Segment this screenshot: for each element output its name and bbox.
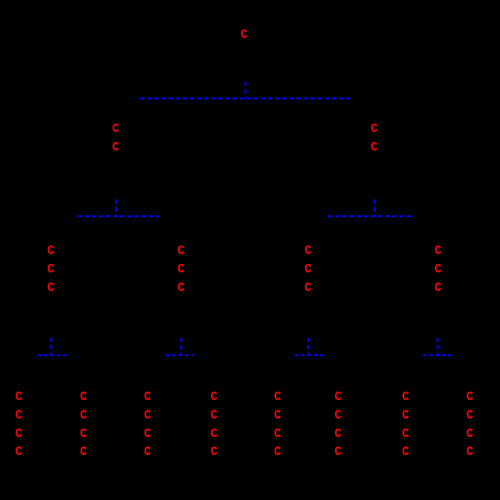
node leaf-3 label (4x C) (144, 389, 152, 459)
svg-text:C: C (334, 408, 342, 423)
svg-text:C: C (47, 243, 55, 258)
svg-text:C: C (210, 426, 218, 441)
svg-text:C: C (112, 121, 120, 136)
svg-text:C: C (274, 445, 282, 460)
node L1-right connector bar (horizontal dashed wire) (328, 215, 411, 217)
node L2-2 label (3x C) (177, 243, 185, 295)
svg-text:C: C (402, 408, 410, 423)
node root connector bar (horizontal dashed wire) (140, 98, 350, 100)
svg-text:C: C (434, 280, 442, 295)
svg-text:C: C (80, 408, 88, 423)
svg-text:C: C (210, 445, 218, 460)
svg-text:C: C (304, 262, 312, 277)
svg-text:C: C (15, 445, 23, 460)
svg-text:C: C (334, 389, 342, 404)
node root label (1x C) (240, 27, 248, 42)
svg-text:C: C (210, 408, 218, 423)
svg-text:C: C (274, 389, 282, 404)
node L2-4 connector stub (vertical dashed wire) (437, 337, 439, 355)
svg-text:C: C (15, 408, 23, 423)
svg-text:C: C (210, 389, 218, 404)
node leaf-7 label (4x C) (402, 389, 410, 459)
node L2-1 connector stub (vertical dashed wire) (50, 337, 52, 355)
node L1-right connector stub (vertical dashed wire) (374, 200, 376, 217)
svg-text:C: C (80, 389, 88, 404)
svg-text:C: C (144, 408, 152, 423)
svg-text:C: C (466, 408, 474, 423)
node L2-2 connector stub (vertical dashed wire) (180, 337, 182, 355)
node L2-4 label (3x C) (434, 243, 442, 295)
svg-text:C: C (334, 426, 342, 441)
svg-text:C: C (274, 408, 282, 423)
svg-text:C: C (80, 445, 88, 460)
svg-text:C: C (144, 426, 152, 441)
node L1-right label (2x C) (371, 121, 379, 154)
node leaf-5 label (4x C) (274, 389, 282, 459)
svg-text:C: C (80, 426, 88, 441)
svg-text:C: C (144, 389, 152, 404)
node root connector stub (vertical dashed wire) (244, 82, 246, 99)
node L2-3 connector stub (vertical dashed wire) (307, 337, 309, 355)
svg-text:C: C (177, 280, 185, 295)
node leaf-2 label (4x C) (80, 389, 88, 459)
node L2-3 connector bar (horizontal dashed wire) (295, 354, 325, 356)
node leaf-6 label (4x C) (334, 389, 342, 459)
svg-text:C: C (47, 262, 55, 277)
svg-text:C: C (304, 280, 312, 295)
node L2-1 label (3x C) (47, 243, 55, 295)
svg-text:C: C (371, 140, 379, 155)
node L2-4 connector bar (horizontal dashed wire) (423, 354, 451, 356)
svg-text:C: C (402, 426, 410, 441)
svg-text:C: C (240, 27, 248, 42)
svg-text:C: C (434, 243, 442, 258)
node L1-left label (2x C) (112, 121, 120, 154)
node L1-left connector stub (vertical dashed wire) (115, 200, 117, 217)
svg-text:C: C (466, 445, 474, 460)
svg-text:C: C (47, 280, 55, 295)
svg-text:C: C (434, 262, 442, 277)
svg-text:C: C (466, 426, 474, 441)
svg-text:C: C (274, 426, 282, 441)
node L1-left connector bar (horizontal dashed wire) (78, 215, 160, 217)
svg-text:C: C (177, 262, 185, 277)
svg-text:C: C (177, 243, 185, 258)
svg-text:C: C (15, 389, 23, 404)
node L2-3 label (3x C) (304, 243, 312, 295)
svg-text:C: C (466, 389, 474, 404)
svg-text:C: C (112, 140, 120, 155)
node L2-2 connector bar (horizontal dashed wire) (166, 354, 194, 356)
svg-text:C: C (304, 243, 312, 258)
svg-text:C: C (371, 121, 379, 136)
node L2-1 connector bar (horizontal dashed wire) (38, 354, 67, 356)
svg-text:C: C (144, 445, 152, 460)
node leaf-1 label (4x C) (15, 389, 23, 459)
node leaf-4 label (4x C) (210, 389, 218, 459)
svg-text:C: C (15, 426, 23, 441)
node leaf-8 label (4x C) (466, 389, 474, 459)
svg-text:C: C (402, 389, 410, 404)
svg-text:C: C (402, 445, 410, 460)
svg-text:C: C (334, 445, 342, 460)
